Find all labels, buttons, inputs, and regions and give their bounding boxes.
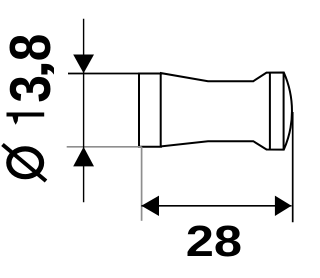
extension line bottom (gray): [67, 146, 142, 148]
head edge line 2 (dome start): [283, 73, 285, 150]
extension line top (black): [68, 73, 162, 75]
arrow right: [275, 196, 292, 216]
label diameter symbol: [9, 149, 42, 177]
knob outline: [139, 73, 292, 150]
svg-text:8: 8: [0, 34, 63, 62]
arrow up: [73, 147, 94, 167]
extension line left vertical (gray): [141, 147, 143, 221]
horizontal dimension line: [141, 205, 291, 207]
extension line right vertical (black): [292, 112, 294, 222]
vertical dimension line: [83, 19, 85, 203]
arrow left: [141, 196, 159, 216]
svg-text:28: 28: [186, 217, 242, 266]
flange edge line: [160, 73, 162, 146]
arrow down: [73, 55, 94, 74]
head edge line 1: [269, 73, 271, 150]
